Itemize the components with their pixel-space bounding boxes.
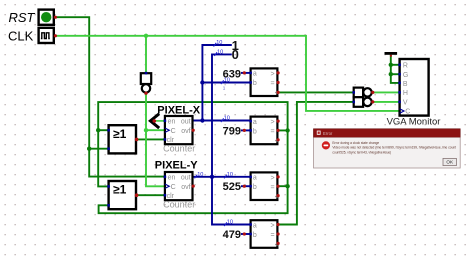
svg-text:≥1: ≥1	[113, 183, 127, 197]
svg-text:Video mode was not detected (l: Video mode was not detected (line term99…	[332, 146, 456, 150]
svg-text:out: out	[181, 174, 191, 181]
svg-text:PIXEL-X: PIXEL-X	[157, 105, 200, 117]
svg-text:≥1: ≥1	[113, 127, 127, 141]
svg-text:CLK: CLK	[8, 29, 34, 44]
svg-text:H: H	[403, 90, 408, 97]
svg-text:b: b	[253, 232, 257, 239]
svg-text:b: b	[253, 128, 257, 135]
svg-text:OK: OK	[446, 160, 454, 165]
svg-text:10: 10	[217, 50, 223, 56]
svg-text:Error during a clock state cha: Error during a clock state change	[332, 141, 379, 145]
svg-text:10: 10	[224, 116, 230, 122]
svg-text:a: a	[253, 119, 257, 126]
svg-text:C: C	[171, 128, 176, 135]
svg-text:C: C	[171, 184, 176, 191]
svg-text:1: 1	[223, 85, 226, 90]
svg-text:Counter: Counter	[163, 200, 195, 210]
svg-text:10: 10	[224, 78, 230, 84]
svg-text:10: 10	[227, 220, 233, 226]
svg-text:a: a	[253, 175, 257, 182]
svg-text:10: 10	[197, 172, 203, 178]
svg-text:G: G	[403, 72, 408, 79]
svg-text:10: 10	[227, 172, 233, 178]
svg-text:R: R	[403, 63, 408, 70]
svg-text:RST: RST	[9, 10, 36, 25]
svg-text:=: =	[271, 232, 275, 239]
svg-text:a: a	[253, 71, 257, 78]
svg-text:=: =	[271, 184, 275, 191]
svg-text:ovf: ovf	[181, 184, 190, 191]
svg-text:=: =	[271, 80, 275, 87]
svg-text:0: 0	[232, 47, 239, 62]
svg-text:b: b	[253, 184, 257, 191]
svg-text:count525, vSync term43, vNegat: count525, vSync term43, vNegativeHsue)	[332, 150, 391, 154]
svg-text:out: out	[181, 118, 191, 125]
svg-text:C: C	[405, 109, 410, 116]
svg-text:en: en	[168, 174, 176, 181]
svg-text:Counter: Counter	[163, 144, 195, 154]
svg-text:ovf: ovf	[181, 128, 190, 135]
svg-text:479: 479	[223, 229, 241, 241]
svg-text:799: 799	[223, 125, 241, 137]
svg-text:525: 525	[223, 181, 241, 193]
svg-text:>: >	[271, 119, 275, 126]
svg-text:=: =	[271, 129, 275, 136]
svg-text:B: B	[403, 81, 408, 88]
svg-text:Error: Error	[323, 131, 333, 136]
svg-text:V: V	[403, 100, 408, 107]
svg-text:10: 10	[216, 40, 222, 46]
svg-text:en: en	[168, 118, 176, 125]
svg-text:VGA Monitor: VGA Monitor	[387, 116, 441, 127]
svg-text:>: >	[271, 71, 275, 78]
svg-text:>: >	[271, 223, 275, 230]
svg-text:a: a	[253, 222, 257, 229]
svg-text:PIXEL-Y: PIXEL-Y	[155, 159, 198, 171]
svg-text:b: b	[253, 80, 257, 87]
svg-text:>: >	[271, 175, 275, 182]
